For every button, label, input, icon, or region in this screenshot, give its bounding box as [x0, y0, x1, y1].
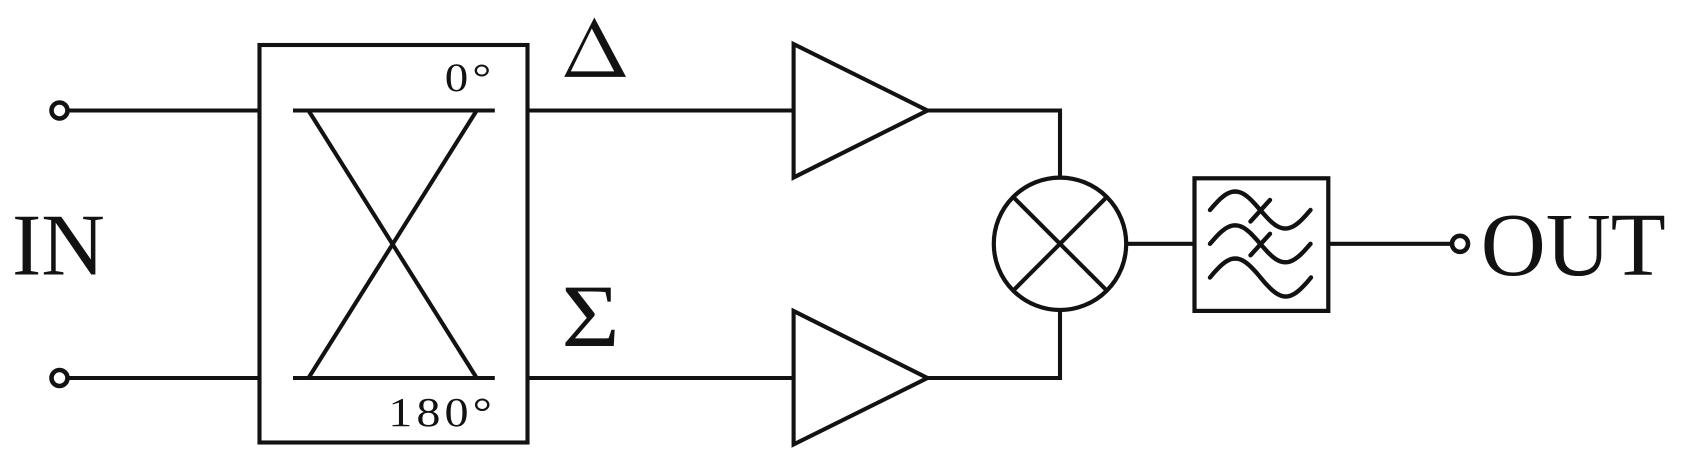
wire: hybrid 0-deg port to top amplifier: [528, 108, 794, 112]
wire: bottom amplifier to mixer: [928, 311, 1061, 378]
output terminal: [1452, 236, 1468, 252]
hybrid top bar: [293, 108, 495, 112]
input terminal (top): [52, 103, 68, 119]
input terminal (bottom): [52, 370, 68, 386]
svg-text:0°: 0°: [445, 56, 495, 100]
wire: hybrid 180-deg port to bottom amplifier: [528, 376, 794, 380]
filter wave 2 (middle sine): [1210, 225, 1311, 262]
svg-text:OUT: OUT: [1481, 196, 1666, 295]
svg-text:180°: 180°: [388, 389, 496, 435]
mixer (circle): [994, 178, 1126, 310]
wire: top input to hybrid: [70, 108, 260, 112]
wire: bottom input to hybrid: [70, 376, 260, 380]
amplifier A2 (bottom): [794, 311, 928, 445]
wire: mixer to low-pass filter: [1126, 242, 1195, 246]
delta output label: [564, 18, 626, 77]
filter wave 1 (top sine): [1210, 192, 1311, 229]
hybrid bottom bar: [293, 376, 495, 380]
hybrid cross diagonal (top-left to bottom-right): [309, 111, 477, 379]
filter wave 2 slash: [1251, 234, 1271, 256]
mixer cross diagonal (ne-sw): [1013, 197, 1107, 291]
svg-text:IN: IN: [12, 198, 105, 295]
hybrid cross diagonal (top-right to bottom-left): [309, 111, 477, 379]
svg-text:Σ: Σ: [562, 268, 620, 365]
low-pass filter box: [1195, 178, 1329, 311]
wire: filter to output terminal: [1328, 242, 1450, 246]
mixer cross diagonal (nw-se): [1013, 197, 1107, 291]
amplifier A1 (top): [794, 44, 928, 178]
wire: top amplifier to mixer: [928, 111, 1061, 177]
filter wave 1 slash: [1251, 200, 1271, 222]
filter wave 3 (bottom sine): [1210, 259, 1311, 297]
180-degree hybrid coupler box: [260, 45, 528, 443]
